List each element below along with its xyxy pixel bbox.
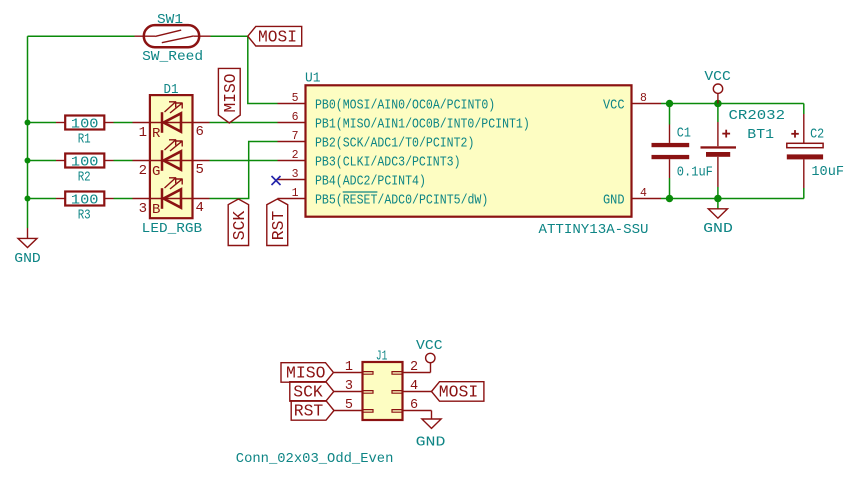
switch SW1 reed switch xyxy=(135,12,211,65)
svg-text:6: 6 xyxy=(410,398,418,413)
connector J1 body xyxy=(236,348,403,467)
capacitor C1 0.1uF xyxy=(652,104,713,199)
svg-text:MOSI: MOSI xyxy=(258,29,297,48)
svg-text:VCC: VCC xyxy=(416,338,443,354)
svg-text:1: 1 xyxy=(292,187,299,200)
U1 pin 2 PB3 xyxy=(278,149,461,170)
svg-text:MISO: MISO xyxy=(222,74,241,113)
svg-text:G: G xyxy=(152,164,160,180)
svg-text:R1: R1 xyxy=(78,132,91,148)
svg-text:GND: GND xyxy=(603,192,625,208)
label SCK global (vertical) xyxy=(228,199,250,246)
label MISO global at J1 xyxy=(281,363,334,384)
svg-text:RST: RST xyxy=(294,403,324,422)
svg-text:CR2032: CR2032 xyxy=(729,108,786,124)
label RST global at J1 xyxy=(291,401,334,422)
wire D1 pin 6 to U1 pin 6 xyxy=(210,122,278,124)
wire R1 to D1 pin 1 xyxy=(114,122,133,124)
wire junction to R3 xyxy=(28,198,57,200)
svg-text:PB3(CLKI/ADC3/PCINT3): PB3(CLKI/ADC3/PCINT3) xyxy=(315,154,461,170)
svg-text:3: 3 xyxy=(292,168,299,181)
svg-text:10uF: 10uF xyxy=(811,164,844,180)
ground power symbol bottom xyxy=(703,199,733,238)
J1 pin 1 xyxy=(334,360,373,375)
svg-text:SW_Reed: SW_Reed xyxy=(142,49,203,65)
svg-text:GND: GND xyxy=(14,251,41,267)
J1 pin 6 xyxy=(392,398,432,413)
svg-text:B: B xyxy=(152,202,160,218)
wire left rail vertical xyxy=(27,36,29,228)
svg-text:PB2(SCK/ADC1/T0/PCINT2): PB2(SCK/ADC1/T0/PCINT2) xyxy=(315,135,474,151)
svg-text:100: 100 xyxy=(71,192,99,208)
svg-text:6: 6 xyxy=(196,124,204,140)
power VCC symbol at J1 xyxy=(416,338,443,373)
svg-text:MOSI: MOSI xyxy=(439,384,479,403)
label MOSI global at J1 xyxy=(432,382,484,403)
svg-text:R3: R3 xyxy=(78,208,91,224)
wire R2 to D1 pin 2 xyxy=(114,160,133,162)
svg-text:Conn_02x03_Odd_Even: Conn_02x03_Odd_Even xyxy=(236,451,394,467)
svg-text:100: 100 xyxy=(71,116,99,132)
label MISO global (vertical) xyxy=(218,68,241,123)
wire junction to R2 xyxy=(28,160,57,162)
svg-text:PB1(MISO/AIN1/OC0B/INT0/PCINT1: PB1(MISO/AIN1/OC0B/INT0/PCINT1) xyxy=(315,116,530,132)
svg-text:100: 100 xyxy=(71,154,99,170)
LED D1 green element pin 2/5 xyxy=(133,140,210,181)
J1 pin 3 xyxy=(334,379,373,394)
power VCC symbol top xyxy=(704,69,731,104)
svg-text:7: 7 xyxy=(292,130,299,143)
svg-text:GND: GND xyxy=(703,221,733,237)
svg-text:ATTINY13A-SSU: ATTINY13A-SSU xyxy=(539,222,649,238)
U1 pin 4 GND xyxy=(603,187,661,208)
U1 pin 8 VCC xyxy=(603,92,661,113)
J1 pin 4 xyxy=(392,379,432,394)
svg-text:C1: C1 xyxy=(677,125,691,141)
svg-text:2: 2 xyxy=(139,163,147,179)
svg-text:1: 1 xyxy=(139,125,147,141)
wire VCC rail top xyxy=(661,103,804,105)
node junction VCC top xyxy=(714,100,722,108)
resistor R3 100 xyxy=(56,192,114,224)
node junction GND bottom xyxy=(714,195,722,203)
U1 pin 5 PB0 xyxy=(278,92,496,113)
svg-text:LED_RGB: LED_RGB xyxy=(142,221,202,237)
wire D1 pin 5 to U1 pin 2 xyxy=(210,160,278,162)
J1 pin 2 xyxy=(392,360,431,375)
svg-text:SCK: SCK xyxy=(293,384,323,403)
svg-text:SCK: SCK xyxy=(231,210,250,240)
svg-text:U1: U1 xyxy=(305,71,321,87)
wire GND rail bottom xyxy=(661,198,804,200)
svg-text:5: 5 xyxy=(196,162,204,178)
svg-text:PB5(RESET/ADC0/PCINT5/dW): PB5(RESET/ADC0/PCINT5/dW) xyxy=(315,192,488,208)
svg-text:RST: RST xyxy=(270,211,289,241)
svg-text:8: 8 xyxy=(640,92,647,105)
svg-text:R2: R2 xyxy=(78,170,91,186)
svg-text:5: 5 xyxy=(345,398,353,413)
wire D1 pin 4 to U1 pin 7 xyxy=(210,142,278,199)
LED D1 red element pin 1/6 xyxy=(133,102,210,143)
U1 pin 3 PB4 xyxy=(277,168,426,189)
LED D1 blue element pin 3/4 xyxy=(133,178,210,219)
node junction C1 bottom xyxy=(666,195,673,202)
label RST global (vertical) xyxy=(267,199,289,246)
svg-text:6: 6 xyxy=(292,111,299,124)
node junction at R1 row xyxy=(25,120,31,126)
U1 pin 6 PB1 xyxy=(278,111,530,132)
no-connect X on U1 pin 3 xyxy=(272,176,281,185)
wire R3 to D1 pin 3 xyxy=(114,198,133,200)
svg-text:MISO: MISO xyxy=(286,365,326,384)
LED D1 LED_RGB body xyxy=(142,82,202,237)
node junction at R3 row xyxy=(25,196,31,202)
svg-text:BT1: BT1 xyxy=(747,127,774,143)
svg-text:2: 2 xyxy=(410,360,418,375)
node junction C1 top xyxy=(666,100,673,107)
ground left power symbol xyxy=(14,228,41,267)
ground power symbol at J1 xyxy=(416,411,446,451)
wire top horizontal to SW1 xyxy=(28,35,135,37)
svg-text:C2: C2 xyxy=(810,126,824,142)
battery BT1 CR2032 xyxy=(701,104,786,199)
svg-text:4: 4 xyxy=(640,187,647,200)
svg-text:D1: D1 xyxy=(164,82,179,98)
svg-text:3: 3 xyxy=(345,379,353,394)
svg-text:R: R xyxy=(152,126,161,142)
resistor R1 100 xyxy=(56,116,114,148)
svg-text:1: 1 xyxy=(345,360,353,375)
resistor R2 100 xyxy=(56,154,114,186)
label SCK global at J1 xyxy=(290,382,334,403)
svg-text:PB4(ADC2/PCINT4): PB4(ADC2/PCINT4) xyxy=(315,173,426,189)
svg-text:3: 3 xyxy=(139,201,147,217)
U1 pin 1 PB5 xyxy=(278,187,489,208)
svg-text:VCC: VCC xyxy=(704,69,731,85)
svg-text:0.1uF: 0.1uF xyxy=(677,165,713,181)
node junction at R2 row xyxy=(25,158,31,164)
U1 pin 7 PB2 xyxy=(278,130,475,151)
IC U1 ATTINY13A-SSU body xyxy=(305,71,649,239)
label MOSI global (top) xyxy=(248,26,302,47)
wire VCC rail to C2 xyxy=(803,104,805,115)
svg-text:J1: J1 xyxy=(376,348,388,364)
svg-text:4: 4 xyxy=(410,379,418,394)
capacitor C2 10uF polarized xyxy=(787,114,844,199)
svg-text:GND: GND xyxy=(416,435,446,451)
svg-text:PB0(MOSI/AIN0/OC0A/PCINT0): PB0(MOSI/AIN0/OC0A/PCINT0) xyxy=(315,97,495,113)
wire SW1 to MOSI label xyxy=(211,35,248,37)
svg-text:2: 2 xyxy=(292,149,299,162)
svg-text:VCC: VCC xyxy=(603,97,625,113)
svg-text:5: 5 xyxy=(292,92,299,105)
svg-text:4: 4 xyxy=(196,200,204,216)
wire MOSI label down to U1 pin 5 xyxy=(248,36,278,103)
svg-text:SW1: SW1 xyxy=(157,12,183,28)
wire junction to R1 xyxy=(28,122,57,124)
J1 pin 5 xyxy=(334,398,373,413)
